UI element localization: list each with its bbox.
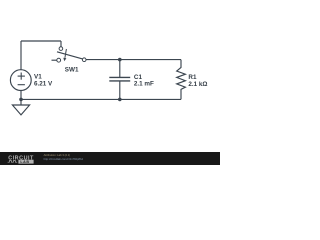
wire right rail xyxy=(86,59,181,61)
footer bar xyxy=(0,152,220,165)
switch SW1 blade xyxy=(57,52,83,59)
wire top rail xyxy=(21,40,61,42)
node junction dots xyxy=(19,58,121,101)
svg-text:2.1 kΩ: 2.1 kΩ xyxy=(188,81,207,88)
voltage source V1 xyxy=(10,70,31,91)
CircuitLab logo xyxy=(8,155,34,164)
wire capacitor top lead xyxy=(119,60,121,78)
labels xyxy=(34,67,207,88)
svg-text:LAB: LAB xyxy=(20,160,29,164)
svg-text:http://circuitlab.com/c/2n784p: http://circuitlab.com/c/2n784p8b4 xyxy=(44,157,84,161)
wire left rail lower xyxy=(20,91,22,106)
svg-text:2.1 mF: 2.1 mF xyxy=(134,81,154,88)
capacitor C1 plates xyxy=(109,76,130,78)
wire switch drop xyxy=(60,41,62,47)
wire bottom rail xyxy=(21,98,181,100)
svg-text:6.21 V: 6.21 V xyxy=(34,81,53,88)
wire capacitor bottom lead xyxy=(119,81,121,100)
switch SW1 terminal circles xyxy=(57,47,86,62)
switch SW1 arrow xyxy=(65,49,67,58)
wire left rail upper xyxy=(20,41,22,70)
svg-text:SW1: SW1 xyxy=(65,67,79,74)
ground xyxy=(20,104,22,106)
svg-text:R1: R1 xyxy=(188,74,197,81)
switch SW1 left stub xyxy=(52,59,57,61)
resistor R1 xyxy=(177,60,186,100)
svg-text:Attribution: Lab 3 (2.1): Attribution: Lab 3 (2.1) xyxy=(44,153,71,157)
